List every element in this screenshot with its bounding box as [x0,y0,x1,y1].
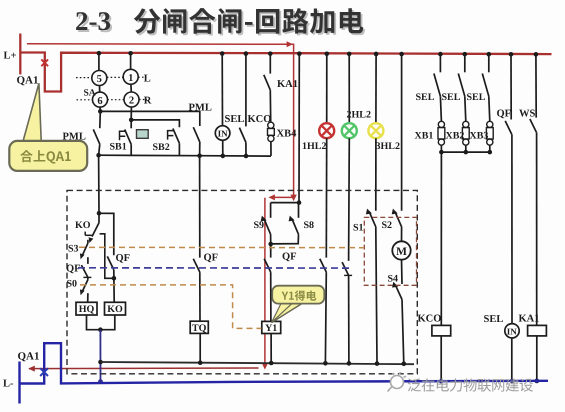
svg-text:QA1: QA1 [18,351,40,363]
svg-text:5: 5 [97,74,102,85]
wire bus to 2HL2 [348,53,350,123]
wire KA1 to L- [536,336,538,381]
svg-text:SEL: SEL [442,92,461,103]
link XB2 [463,121,469,127]
node dots y363 [198,360,203,365]
svg-text:S9: S9 [254,220,265,231]
contact WS [535,54,537,118]
svg-text:KO: KO [75,220,91,231]
node dots y155 [96,153,101,158]
svg-text:3HL2: 3HL2 [376,141,400,152]
svg-text:S4: S4 [388,274,399,285]
svg-text:M: M [396,246,407,258]
contact QF (1HL2 branch) [325,138,327,257]
svg-text:L+: L+ [4,51,17,62]
SA contact 2 [124,92,139,107]
contact QF (Y1 branch) [270,244,272,258]
svg-text:SEL: SEL [467,92,486,103]
svg-text:KO: KO [107,304,123,315]
svg-text:QF: QF [282,251,297,262]
coil KA1 [528,325,547,336]
lamp 3HL2 (yellow) [368,123,383,138]
svg-text:2: 2 [129,96,134,107]
coil TQ [190,321,208,333]
contact SEL1 [439,54,441,73]
contact SB2 pushbutton [173,129,180,144]
svg-text:1HL2: 1HL2 [302,141,326,152]
node line y363 [101,362,415,364]
svg-text:1: 1 [128,73,133,84]
svg-text:S2: S2 [382,220,393,231]
watermark text 泛在电力物联网建设 [408,378,533,391]
contact QF (2HL2 branch) [348,138,351,261]
contact QF (right) [510,54,512,120]
wire IN to node [222,140,224,156]
callout Y1得电 [272,304,303,323]
svg-text:KA1: KA1 [277,79,298,90]
wire node120 to SB2 [131,120,179,127]
L- bus junction dots [439,379,443,383]
L- terminal bar [18,362,20,404]
svg-text:L: L [144,73,151,84]
inst IN (right) [505,324,519,338]
coil Y1 [262,321,281,333]
node under SA-6 [99,107,101,112]
svg-text:KCO: KCO [418,314,442,325]
contact S0 [82,280,88,292]
red highlight wire: bottom return to QA1 [29,367,259,370]
svg-text:2-3: 2-3 [75,6,111,36]
contact KCO [245,53,247,126]
watermark magnifier icon [388,372,407,392]
wire bus to 3HL2 [375,53,377,123]
svg-text:XB2: XB2 [446,131,465,142]
svg-text:S8: S8 [304,220,315,231]
svg-text:QF: QF [204,252,219,263]
svg-text:SA: SA [84,89,96,99]
lamp 1HL2 (red) [319,123,334,138]
wire bus to SA-1 [130,53,132,70]
L+ terminal bar [19,34,21,75]
svg-text:QF: QF [497,108,512,119]
SA contact 5 [92,71,107,86]
wire TQ to node [199,333,201,362]
svg-text:KA1: KA1 [519,314,540,325]
link XB3 [487,121,493,127]
dashed enclosure (inner, travel unit) [364,217,416,285]
contact PML left [99,111,102,128]
red highlight wire: top run to S8/S9 drop [27,44,294,198]
dashed enclosure (outer) [67,190,417,373]
wire Y1 to node [270,334,272,363]
svg-text:QF: QF [116,253,131,264]
contact QF (KO branch) [107,256,114,269]
wire L- bus with QA1 bridge [20,343,549,383]
svg-text:SEL: SEL [225,114,245,125]
QA1 open marker X (red) [41,59,48,66]
wire branch to QF-right [99,213,114,255]
wire to KCO coil [440,152,442,325]
contact S4 [401,260,404,284]
motor M [392,241,410,259]
wire XB join [441,151,489,153]
svg-text:XB1: XB1 [415,131,434,142]
contact S8 [298,203,300,218]
svg-text:S3: S3 [68,244,79,255]
SA dotted leaders row2 [77,99,93,101]
contact KA1 [269,53,271,73]
contact QF (HQ branch) [81,265,88,277]
svg-text:SB2: SB2 [153,142,170,153]
dashed link S3-row (orange) [79,246,364,248]
wire merge to L- bus (blue) [99,330,101,382]
svg-text:HQ: HQ [79,304,95,315]
wire 1-2 link [130,84,132,93]
callout 合上QA1 [23,83,41,141]
QA1 open marker X (blue) [40,368,48,376]
wire HQ/KO merge [87,315,115,330]
contact SEL3 [488,54,490,73]
inst transducer IN (circle) [215,126,230,141]
wire bus to IN [221,53,223,125]
svg-text:IN: IN [218,129,229,139]
wire bus to S8/S9 node [298,53,300,202]
wire 5-6 link [99,85,101,92]
node under SA-2 [130,107,132,120]
wire bus to 1HL2 [326,53,328,123]
SA contact 1 [123,69,138,84]
contact S9 [270,203,272,218]
wire bus to SA-5 [98,53,100,71]
svg-text:XB3: XB3 [470,131,489,142]
wire node111 to PML-right [100,111,200,126]
indicator block (cyan) [137,130,149,139]
wire IN to L- [511,338,513,381]
contact QF (TQ branch) [199,156,201,258]
svg-text:SEL: SEL [484,314,504,325]
contact SB1 pushbutton [130,120,132,128]
wire KO bypass [100,234,114,278]
contact S1 [375,138,377,211]
SA dotted leaders row1 [76,77,92,79]
SA contact 6 [93,92,108,107]
red highlight wire: down to Y1 [264,198,266,365]
svg-text:6: 6 [97,96,102,107]
svg-text:TQ: TQ [192,323,207,334]
svg-text:2HL2: 2HL2 [347,110,371,121]
contact S3 [87,240,89,243]
coil KO [105,302,126,315]
coil HQ [76,302,97,315]
node line y155 [99,154,271,157]
svg-text:S0: S0 [67,279,78,290]
svg-text:SB1: SB1 [110,141,127,152]
svg-text:QA1: QA1 [17,75,39,87]
svg-text:IN: IN [507,326,518,336]
contact KO [98,213,100,223]
contact SEL2 [464,54,466,73]
dashed link QF-row (blue) [78,267,352,269]
contact S2 [401,54,403,211]
svg-text:PML: PML [189,102,212,113]
link XB1 [438,121,444,127]
wire node155 down-left [98,155,100,213]
dashed link S0-Y1 (orange) [80,285,261,329]
bus junction dots [97,51,102,56]
svg-text:Y1: Y1 [265,323,277,334]
wire L+ bus with QA1 dip [20,53,551,92]
svg-text:SEL: SEL [416,92,435,103]
svg-text:L-: L- [3,379,14,390]
svg-text:XB4: XB4 [277,129,298,140]
svg-text:WS: WS [519,109,536,120]
svg-text:S1: S1 [353,222,364,233]
link XB4 [268,122,274,128]
lamp 2HL2 (green) [342,123,357,138]
svg-text:R: R [144,95,152,106]
wire KCO to L- [440,336,442,381]
svg-text:QF: QF [66,264,81,275]
contact PML right [193,127,200,142]
coil KCO [432,325,451,336]
